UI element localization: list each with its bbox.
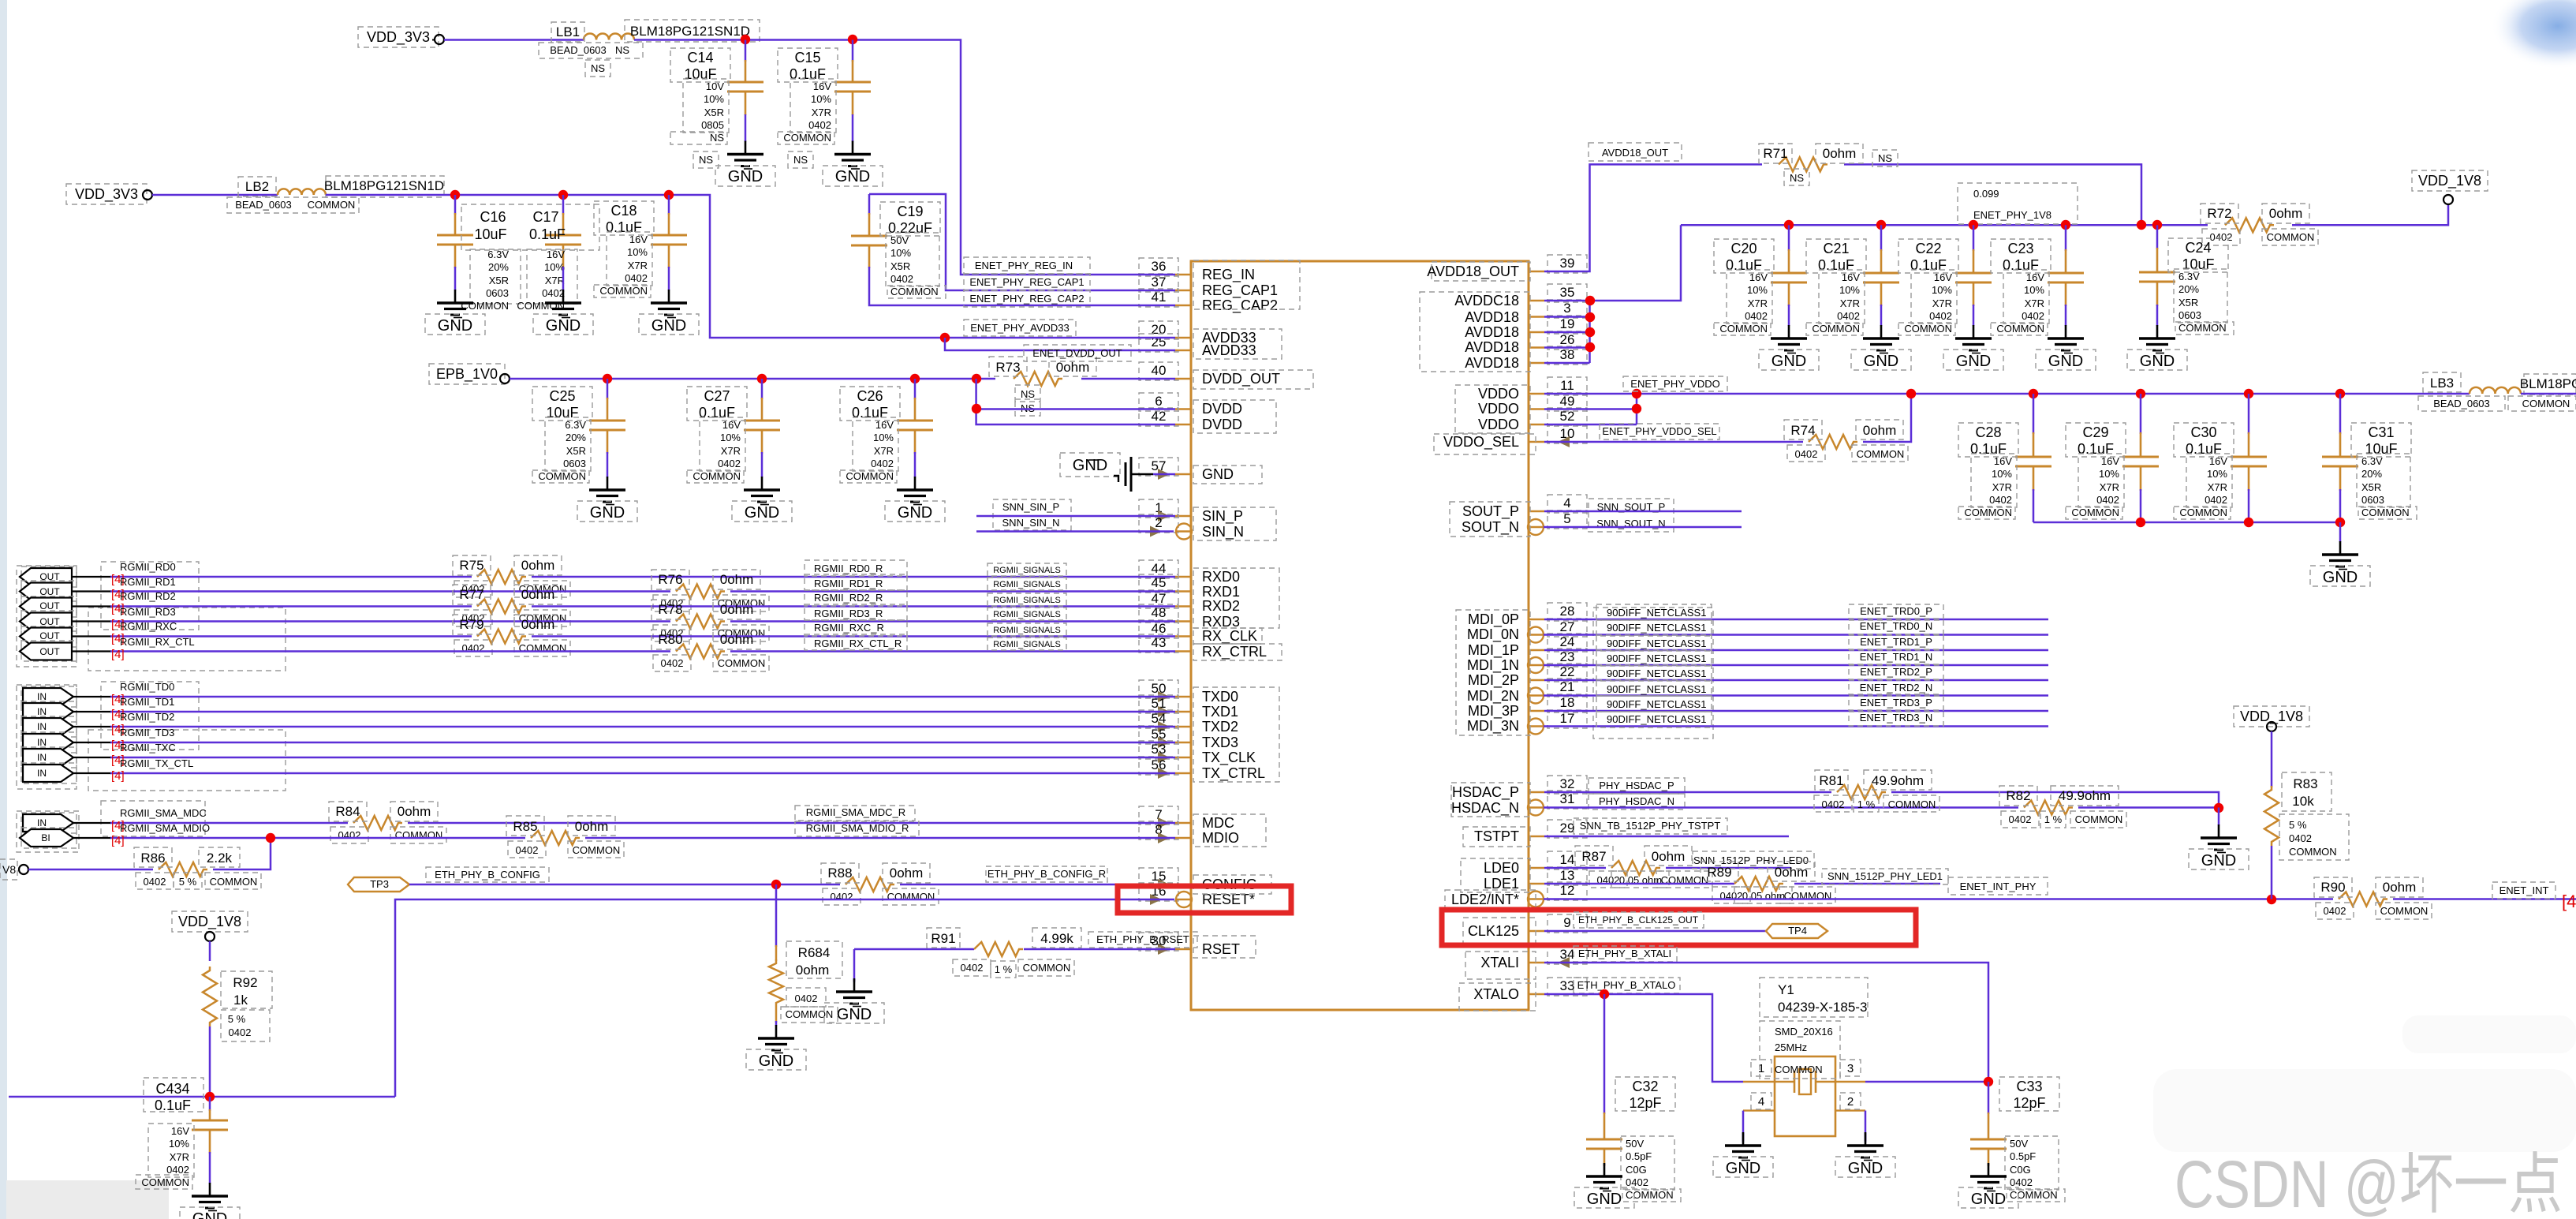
svg-text:OUT: OUT	[39, 630, 60, 641]
wire AVDDC18/AVDD18 pins	[1544, 300, 1590, 302]
svg-text:ENET_PHY_1V8: ENET_PHY_1V8	[1973, 209, 2051, 221]
wire CONFIG	[409, 884, 840, 886]
svg-text:VDDO: VDDO	[1478, 401, 1519, 417]
svg-text:COMMON: COMMON	[846, 470, 894, 482]
svg-text:C20: C20	[1730, 241, 1757, 256]
pin 44 RXD0	[1175, 576, 1191, 578]
resistor R84 0ohm	[353, 816, 402, 830]
svg-text:ETH_PHY_B_XTALO: ETH_PHY_B_XTALO	[1577, 979, 1676, 991]
svg-text:GND: GND	[1771, 353, 1806, 370]
svg-text:BLM18PG121SN1D: BLM18PG121SN1D	[324, 178, 444, 193]
svg-text:ENET_TRD2_N: ENET_TRD2_N	[1860, 682, 1932, 694]
svg-text:0603: 0603	[486, 287, 509, 299]
svg-text:0.1uF: 0.1uF	[1818, 257, 1854, 273]
svg-text:IN: IN	[37, 752, 47, 763]
svg-text:0402: 0402	[1929, 310, 1952, 322]
junction C16	[450, 190, 460, 200]
svg-text:NS: NS	[615, 44, 629, 56]
svg-text:C25: C25	[549, 388, 575, 404]
labels Y1	[1760, 978, 1868, 1017]
junction CONFIG/R684	[771, 880, 781, 889]
svg-text:ENET_DVDD_OUT: ENET_DVDD_OUT	[1032, 347, 1122, 359]
svg-text:0402: 0402	[961, 962, 984, 974]
pin 52 VDDO	[1529, 424, 1544, 426]
junction C22	[1969, 220, 1978, 230]
svg-text:RXD3: RXD3	[1202, 614, 1240, 630]
ferrite bead LB2	[152, 194, 278, 196]
svg-text:44: 44	[1152, 561, 1167, 576]
svg-text:0.5pF: 0.5pF	[1626, 1150, 1652, 1162]
svg-text:28: 28	[1560, 604, 1575, 619]
svg-text:GND: GND	[2201, 852, 2236, 869]
svg-text:ETH_PHY_B_CONFIG_R: ETH_PHY_B_CONFIG_R	[987, 868, 1106, 880]
svg-text:26: 26	[1560, 332, 1575, 347]
svg-text:GND: GND	[1726, 1160, 1760, 1177]
net label ETH_PHY_B_CONFIG_R	[986, 866, 1107, 882]
ground under C25	[607, 452, 609, 477]
svg-text:0402: 0402	[166, 1164, 189, 1176]
label RGMII_SIGNALS	[987, 593, 1066, 606]
pin 48 RXD3	[1175, 620, 1191, 623]
junction C21	[1876, 220, 1886, 230]
svg-text:10%: 10%	[873, 432, 894, 443]
svg-text:COMMON: COMMON	[1812, 323, 1860, 335]
svg-text:16V: 16V	[547, 249, 565, 260]
svg-text:SNN_TB_1512P_PHY_TSTPT: SNN_TB_1512P_PHY_TSTPT	[1580, 820, 1721, 832]
svg-text:90DIFF_NETCLASS1: 90DIFF_NETCLASS1	[1607, 622, 1706, 634]
junction HSDAC gnd	[2214, 803, 2223, 813]
capacitor C14	[745, 40, 747, 62]
svg-text:48: 48	[1152, 605, 1167, 620]
svg-text:X7R: X7R	[2025, 297, 2044, 309]
IN/BI ports group box	[17, 811, 79, 852]
svg-text:COMMON: COMMON	[1775, 1064, 1823, 1075]
wire RGMII_SMA_MDC	[110, 822, 348, 825]
net label ENET_INT_PHY	[1948, 877, 2048, 895]
svg-text:1 %: 1 %	[2044, 813, 2063, 825]
wire Y1 pin4 to gnd	[1742, 1111, 1745, 1142]
svg-text:RGMII_SIGNALS: RGMII_SIGNALS	[993, 580, 1061, 589]
pin 1 SIN_P	[1175, 515, 1191, 518]
svg-text:[4: [4	[2562, 892, 2576, 911]
90DIFF labels group box	[1593, 608, 1713, 739]
pin 45 RXD1	[1175, 590, 1191, 593]
svg-text:21: 21	[1560, 679, 1575, 694]
svg-text:COMMON: COMMON	[1626, 1189, 1674, 1201]
IC U? Ethernet PHY body	[1191, 261, 1529, 1010]
svg-text:14: 14	[1560, 852, 1575, 867]
svg-text:TP3: TP3	[370, 878, 389, 890]
svg-text:RGMII_SMA_MDIO: RGMII_SMA_MDIO	[120, 822, 210, 834]
power flag VDD_3V3 (top)	[358, 27, 439, 47]
svg-text:10%: 10%	[890, 247, 911, 259]
svg-text:TSTPT: TSTPT	[1474, 828, 1519, 844]
OUT ports group box	[17, 566, 77, 667]
port IN RGMII_TXC	[21, 747, 77, 768]
svg-text:0ohm: 0ohm	[1775, 865, 1809, 880]
svg-text:TX_CLK: TX_CLK	[1202, 750, 1256, 766]
svg-text:[4]: [4]	[111, 769, 125, 783]
pin 2 SIN_N	[1175, 530, 1191, 533]
svg-text:49.9ohm: 49.9ohm	[2059, 788, 2111, 803]
svg-text:R81: R81	[1819, 773, 1843, 788]
svg-text:0402: 0402	[2096, 494, 2119, 506]
svg-text:RGMII_SIGNALS: RGMII_SIGNALS	[993, 640, 1061, 649]
pin 32 HSDAC_P	[1529, 791, 1544, 794]
net label ENET_TRD1_N	[1849, 650, 1943, 664]
svg-text:GND: GND	[1202, 466, 1234, 482]
svg-text:0ohm: 0ohm	[1652, 849, 1686, 864]
svg-text:MDI_1P: MDI_1P	[1468, 642, 1519, 659]
svg-text:52: 52	[1560, 409, 1575, 424]
label 90DIFF_NETCLASS1	[1596, 696, 1712, 712]
svg-text:X7R: X7R	[1748, 297, 1768, 309]
svg-text:35: 35	[1560, 285, 1575, 300]
junction C28	[2029, 389, 2038, 398]
svg-text:BEAD_0603: BEAD_0603	[550, 44, 607, 56]
label 90DIFF_NETCLASS1	[1596, 665, 1712, 681]
svg-text:RGMII_RD0: RGMII_RD0	[120, 561, 176, 573]
net label ENET_PHY_VDDO_SEL	[1600, 424, 1719, 439]
svg-text:RGMII_RD3: RGMII_RD3	[120, 606, 176, 618]
svg-text:C31: C31	[2368, 424, 2394, 440]
net label ENET_PHY_REG_IN	[964, 257, 1090, 274]
svg-text:0402: 0402	[625, 272, 648, 284]
svg-text:0ohm: 0ohm	[575, 819, 609, 834]
wire RGMII_RD0	[110, 576, 472, 578]
svg-text:10%: 10%	[704, 93, 724, 105]
pin 34 XTALI	[1529, 962, 1544, 964]
svg-text:C23: C23	[2007, 241, 2033, 256]
resistor R86 2.2k	[159, 862, 207, 877]
svg-text:6: 6	[1155, 394, 1162, 409]
svg-text:NS: NS	[710, 132, 724, 144]
net label ENET_TRD3_N	[1849, 712, 1943, 726]
pin 33 XTALO	[1529, 993, 1544, 996]
resistor R75 0ohm	[477, 570, 526, 584]
svg-text:AVDD18: AVDD18	[1465, 309, 1519, 325]
wire SOUT_N	[1544, 526, 1742, 529]
svg-text:13: 13	[1560, 868, 1575, 883]
ground under R684	[775, 1021, 778, 1026]
svg-text:Y1: Y1	[1778, 982, 1794, 997]
wire XTALI	[1544, 963, 1988, 1082]
svg-text:C17: C17	[532, 209, 558, 225]
highlight CLK125 row (red)	[1442, 910, 1916, 945]
net label ETH_PHY_B_RSET	[1088, 932, 1197, 948]
resistor R80 0ohm	[676, 645, 725, 659]
svg-text:COMMON: COMMON	[1996, 323, 2044, 335]
resistor R79 0ohm	[477, 630, 526, 644]
svg-text:38: 38	[1560, 347, 1575, 362]
svg-text:16V: 16V	[2026, 271, 2044, 283]
port IN RGMII_TD1	[21, 701, 77, 722]
wire RESET*	[395, 899, 1174, 1097]
label RGMII_SIGNALS	[987, 638, 1066, 650]
wire MDI ENET_TRD0_P	[1544, 619, 2048, 621]
resistor R91 4.99k	[974, 942, 1023, 956]
wire VDDO pins	[1544, 393, 2470, 395]
wire RGMII_TD2	[110, 726, 1175, 728]
svg-text:IN: IN	[37, 768, 47, 779]
svg-text:90DIFF_NETCLASS1: 90DIFF_NETCLASS1	[1607, 698, 1706, 710]
svg-text:COMMON: COMMON	[2075, 813, 2123, 825]
resistor R82 49.9ohm	[2024, 801, 2073, 815]
net label ETH_PHY_B_XTALI	[1574, 946, 1677, 962]
net label ENET_TRD0_P	[1849, 604, 1943, 619]
svg-text:HSDAC_P: HSDAC_P	[1452, 784, 1519, 801]
junction C18	[664, 190, 674, 200]
svg-text:C26: C26	[857, 388, 883, 404]
svg-text:X5R: X5R	[704, 107, 724, 118]
ground under C18	[668, 267, 670, 290]
junction C15	[848, 35, 857, 44]
svg-text:ENET_PHY_AVDD33: ENET_PHY_AVDD33	[970, 322, 1069, 334]
pin 30 RSET	[1175, 948, 1191, 951]
wire RGMII_RXC	[110, 635, 472, 638]
pin 37 REG_CAP1	[1175, 290, 1191, 292]
wire after LB3	[2521, 393, 2576, 395]
svg-text:C18: C18	[610, 203, 637, 219]
junction VDDO 49	[1632, 404, 1641, 413]
pin 43 RX_CTRL	[1175, 650, 1191, 653]
svg-text:SIN_N: SIN_N	[1202, 524, 1244, 540]
pin 20 AVDD33	[1175, 337, 1191, 339]
label RGMII_RX_CTL_R	[805, 634, 907, 650]
net label ENET_INT	[2492, 882, 2555, 899]
svg-text:10V: 10V	[706, 80, 724, 92]
svg-text:COMMON: COMMON	[395, 829, 443, 841]
wire Y1 pin3 to C33/XTALI	[1865, 1081, 1988, 1083]
svg-text:MDI_1N: MDI_1N	[1467, 657, 1519, 674]
svg-text:REG_CAP1: REG_CAP1	[1202, 282, 1278, 299]
highlight RESET pin (red)	[1118, 886, 1291, 913]
pin 21 MDI_2N	[1529, 694, 1544, 697]
label 90DIFF_NETCLASS1	[1596, 712, 1712, 727]
label RGMII_RD3_R	[805, 604, 907, 620]
pin 35 AVDDC18	[1529, 300, 1544, 302]
svg-text:COMMON: COMMON	[2361, 507, 2410, 518]
svg-text:19: 19	[1560, 316, 1575, 331]
svg-text:0.1uF: 0.1uF	[2003, 257, 2039, 273]
svg-text:R88: R88	[827, 866, 852, 881]
junction C26	[910, 374, 920, 383]
svg-text:0.1uF: 0.1uF	[1910, 257, 1947, 273]
svg-text:XTALI: XTALI	[1480, 955, 1519, 970]
svg-text:10k: 10k	[2292, 794, 2314, 809]
svg-text:RXD2: RXD2	[1202, 598, 1240, 614]
svg-text:VDDO_SEL: VDDO_SEL	[1443, 434, 1519, 451]
svg-text:MDI_2P: MDI_2P	[1468, 672, 1519, 689]
pin 16 RESET*	[1175, 899, 1191, 901]
svg-text:0402: 0402	[2010, 1176, 2033, 1188]
port OUT RGMII_RXC	[21, 626, 77, 647]
svg-text:ETH_PHY_B_RSET: ETH_PHY_B_RSET	[1096, 933, 1189, 945]
svg-text:0402: 0402	[2022, 310, 2044, 322]
svg-text:IN: IN	[37, 721, 47, 732]
svg-text:TXD3: TXD3	[1202, 735, 1238, 750]
svg-text:TX_CTRL: TX_CTRL	[1202, 765, 1265, 782]
svg-text:1k: 1k	[233, 993, 248, 1008]
wire RGMII_RD2	[110, 605, 472, 608]
svg-text:GND: GND	[590, 504, 625, 522]
port OUT RGMII_RD3	[21, 611, 77, 631]
svg-text:LDE0: LDE0	[1484, 860, 1519, 876]
svg-text:R87: R87	[1581, 849, 1606, 864]
svg-text:GND: GND	[837, 1006, 872, 1023]
svg-text:REG_IN: REG_IN	[1202, 267, 1255, 283]
ground under C14	[745, 114, 747, 142]
svg-text:12pF: 12pF	[2013, 1095, 2045, 1111]
crystal Y1 04239-X-185-3	[1775, 1056, 1835, 1136]
svg-text:RGMII_RD3_R: RGMII_RD3_R	[814, 608, 883, 619]
svg-text:37: 37	[1152, 275, 1167, 290]
wire LB1 to REG_IN vertical	[634, 40, 1175, 275]
svg-text:LB2: LB2	[245, 179, 269, 194]
wire DVDD pins 6 42	[976, 379, 1175, 424]
pin 23 MDI_1N	[1529, 664, 1544, 667]
svg-text:X7R: X7R	[545, 275, 565, 286]
junction R92/C434	[205, 1092, 215, 1101]
junction C14	[741, 35, 750, 44]
label RGMII_RXC_R	[805, 620, 907, 636]
svg-text:1 %: 1 %	[1857, 798, 1876, 810]
wire XTALO	[1544, 994, 1743, 1082]
svg-text:0402: 0402	[542, 287, 565, 299]
resistor R78 0ohm	[676, 615, 725, 629]
svg-text:6.3V: 6.3V	[487, 249, 509, 260]
svg-text:AVDD18: AVDD18	[1465, 355, 1519, 371]
svg-text:X7R: X7R	[628, 260, 648, 271]
svg-text:10%: 10%	[627, 246, 648, 258]
svg-text:16V: 16V	[1749, 271, 1768, 283]
wire SIN_N	[976, 530, 1174, 533]
svg-text:R80: R80	[658, 632, 682, 647]
svg-text:COMMON: COMMON	[1857, 448, 1905, 460]
capacitor C27	[761, 379, 763, 399]
pin 27 MDI_0N	[1529, 634, 1544, 636]
port IN RGMII_TD3	[21, 732, 77, 753]
pin 53 TX_CLK	[1175, 757, 1191, 759]
svg-text:TXD1: TXD1	[1202, 704, 1238, 720]
svg-text:5: 5	[1563, 511, 1570, 526]
capacitor C28 0.1uF	[2033, 394, 2035, 434]
svg-text:AVDD33: AVDD33	[1202, 342, 1256, 358]
svg-text:0ohm: 0ohm	[521, 587, 555, 602]
ferrite bead LB3	[2470, 387, 2521, 394]
svg-text:0ohm: 0ohm	[2383, 880, 2417, 895]
label RGMII_RD1_R	[805, 574, 907, 590]
svg-text:TP4: TP4	[1788, 925, 1807, 937]
svg-text:42: 42	[1152, 409, 1167, 424]
svg-text:RGMII_SIGNALS: RGMII_SIGNALS	[993, 596, 1061, 605]
svg-text:RGMII_TD2: RGMII_TD2	[120, 711, 174, 723]
svg-text:IN: IN	[37, 737, 47, 748]
capacitor C19	[869, 194, 1175, 290]
wire MDI ENET_TRD0_N	[1544, 634, 2048, 636]
pin 10 VDDO_SEL	[1529, 441, 1544, 443]
svg-text:PHY_HSDAC_P: PHY_HSDAC_P	[1599, 780, 1674, 791]
svg-text:R92: R92	[233, 975, 257, 990]
junction DVDD branch	[972, 374, 981, 383]
svg-text:RGMII_SIGNALS: RGMII_SIGNALS	[993, 626, 1061, 635]
label 90DIFF_NETCLASS1	[1596, 620, 1712, 636]
svg-text:NS: NS	[1021, 388, 1035, 400]
svg-text:4: 4	[1563, 495, 1570, 510]
RGMII_RD labels group box	[101, 562, 199, 630]
svg-text:GND: GND	[1864, 353, 1898, 370]
svg-text:40: 40	[1152, 363, 1167, 378]
svg-text:0ohm: 0ohm	[890, 866, 924, 881]
svg-text:0.1uF: 0.1uF	[790, 66, 826, 82]
svg-text:AVDD18_OUT: AVDD18_OUT	[1427, 264, 1519, 280]
net label ENET_DVDD_OUT	[1024, 345, 1131, 361]
svg-text:2.2k: 2.2k	[207, 851, 233, 866]
svg-text:RGMII_RX_CTL: RGMII_RX_CTL	[120, 636, 195, 648]
pin 3 AVDD18	[1529, 316, 1544, 318]
svg-text:ENET_INT: ENET_INT	[2499, 884, 2549, 896]
svg-text:C21: C21	[1823, 241, 1849, 256]
wire RSET	[854, 948, 974, 951]
svg-text:16V: 16V	[875, 419, 894, 431]
svg-text:X7R: X7R	[812, 107, 831, 118]
svg-text:10%: 10%	[811, 93, 831, 105]
capacitor C30 0.1uF	[2248, 394, 2250, 434]
junction DVDD pin6	[972, 404, 981, 413]
net label SNN_SOUT_P / SNN_SOUT_N	[1589, 499, 1674, 532]
svg-text:9: 9	[1563, 915, 1570, 930]
svg-text:GND: GND	[192, 1210, 227, 1219]
svg-text:GND: GND	[2048, 353, 2083, 370]
svg-text:0603: 0603	[563, 458, 586, 469]
pin 13 LDE1	[1529, 883, 1544, 885]
svg-text:NS: NS	[793, 154, 808, 166]
svg-text:GND: GND	[546, 317, 581, 335]
svg-text:X7R: X7R	[721, 445, 741, 457]
wire RGMII_TXC	[110, 757, 1175, 759]
svg-text:OUT: OUT	[39, 586, 60, 597]
svg-text:VDD_3V3: VDD_3V3	[75, 186, 138, 203]
Y1 pin stubs	[1743, 1081, 1775, 1083]
pin 22 MDI_2P	[1529, 679, 1544, 682]
svg-text:0402: 0402	[1837, 310, 1860, 322]
junction R83	[2267, 895, 2276, 904]
svg-text:0ohm: 0ohm	[1056, 360, 1090, 375]
svg-text:NS: NS	[1878, 152, 1892, 164]
net label ENET_TRD1_P	[1849, 635, 1943, 649]
junction C17	[558, 190, 568, 200]
svg-text:27: 27	[1560, 619, 1575, 634]
net label AVDD18_OUT	[1589, 143, 1682, 161]
svg-text:C14: C14	[687, 50, 713, 65]
svg-text:0ohm: 0ohm	[720, 632, 754, 647]
svg-text:0402: 0402	[661, 657, 684, 669]
label RGMII_SMA_MDIO_R	[795, 821, 919, 836]
ground under C22	[1973, 305, 1975, 326]
svg-text:0402: 0402	[516, 844, 539, 856]
svg-text:6.3V: 6.3V	[565, 419, 586, 431]
svg-text:COMMON: COMMON	[887, 891, 935, 903]
svg-text:RESET*: RESET*	[1202, 892, 1255, 907]
wire RGMII_RD3	[110, 620, 670, 623]
capacitor C23 0.1uF	[2065, 225, 2067, 251]
svg-text:C33: C33	[2016, 1079, 2042, 1094]
svg-text:R86: R86	[140, 851, 165, 866]
resistor R92 1k	[209, 941, 211, 961]
svg-text:ENET_TRD2_P: ENET_TRD2_P	[1860, 666, 1932, 678]
svg-text:IN: IN	[37, 691, 47, 702]
svg-text:RGMII_TD3: RGMII_TD3	[120, 727, 174, 739]
